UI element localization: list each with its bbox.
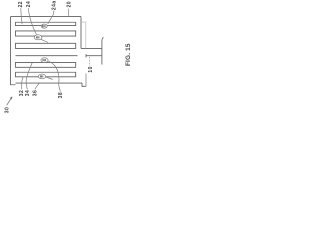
svg-text:24: 24 — [26, 1, 32, 7]
wire right wall lower — [85, 74, 87, 87]
wire bottom right step — [82, 83, 86, 86]
svg-text:FIG. 15: FIG. 15 — [125, 43, 132, 66]
bar D — [16, 62, 76, 67]
svg-text:38: 38 — [58, 92, 64, 98]
ellipse label E4 — [38, 74, 45, 79]
svg-text:10: 10 — [88, 66, 94, 72]
leader T4 — [68, 9, 70, 18]
leader B3 — [35, 83, 39, 89]
bar A — [16, 22, 76, 25]
leader T1 — [21, 8, 22, 24]
wire tab end vertical — [102, 37, 103, 64]
leader T3 — [48, 10, 54, 23]
bar B — [16, 31, 76, 36]
svg-text:34: 34 — [25, 90, 31, 96]
bar E — [16, 72, 76, 77]
bar C — [16, 43, 76, 48]
leader E4 right — [46, 77, 53, 80]
svg-text:20: 20 — [66, 1, 72, 7]
leader B2 — [26, 63, 32, 90]
wire tab bottom — [86, 55, 102, 57]
leader B1 — [22, 76, 24, 89]
label 10 with dashed leader — [88, 57, 94, 73]
svg-text:22: 22 — [18, 1, 24, 7]
wire tab top — [81, 47, 102, 49]
leader B4 long curve to E3 — [48, 61, 60, 92]
wire left outer wall — [11, 17, 16, 85]
svg-text:36: 36 — [33, 90, 39, 96]
svg-text:30: 30 — [5, 107, 11, 113]
svg-text:24a: 24a — [51, 0, 57, 10]
ellipse label E3 — [41, 58, 48, 63]
wire top cover line — [11, 16, 82, 18]
wire right wall upper — [80, 17, 82, 49]
leader T2 — [28, 8, 36, 35]
svg-text:32: 32 — [19, 90, 25, 96]
label 30 with arrow — [5, 96, 13, 113]
wire bottom line — [16, 82, 83, 84]
wire middle separator line — [16, 55, 78, 57]
ellipse label E2 — [34, 35, 42, 40]
wire right step line — [81, 22, 86, 48]
ellipse label E1 — [41, 24, 47, 28]
wire tab-bottom tick — [85, 54, 87, 57]
leader E2 right — [41, 39, 48, 42]
